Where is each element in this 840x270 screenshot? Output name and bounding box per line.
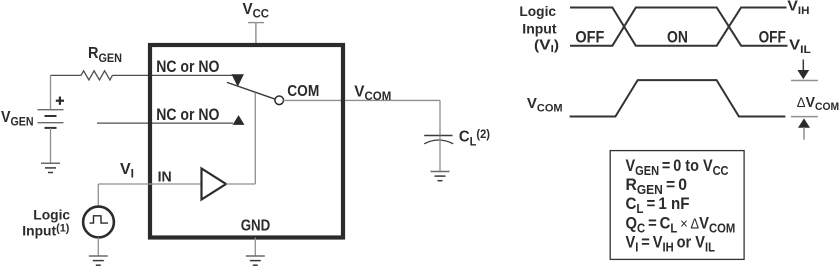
svg-text:GND: GND	[241, 218, 271, 235]
svg-text:VCC: VCC	[243, 1, 270, 21]
label VIH	[787, 0, 809, 17]
VCOM waveform	[570, 80, 786, 116]
wire switch control from buffer	[254, 93, 256, 184]
condition line 2	[626, 175, 688, 196]
svg-text:Input(1): Input(1)	[22, 222, 69, 238]
DUT box	[150, 45, 343, 238]
svg-text:Input: Input	[522, 20, 557, 36]
condition line 5	[626, 234, 716, 255]
label VCOM (schematic)	[354, 83, 391, 103]
label VIL	[789, 37, 811, 56]
label VGEN	[1, 108, 34, 129]
label Logic Input(1)	[33, 206, 70, 222]
wire COM to VCOM node	[283, 99, 440, 101]
svg-text:RGEN: RGEN	[88, 45, 122, 65]
switch lever arm	[227, 82, 275, 99]
label ON	[667, 28, 688, 47]
svg-text:OFF: OFF	[575, 28, 604, 46]
svg-text:NC or NO: NC or NO	[156, 106, 219, 125]
op-amp buffer	[202, 169, 227, 200]
label VI	[120, 161, 134, 181]
label delta VCOM	[797, 95, 839, 114]
wire buffer output	[226, 183, 255, 185]
svg-text:VCOM: VCOM	[527, 95, 563, 114]
svg-text:NC or NO: NC or NO	[156, 58, 219, 77]
svg-text:ΔVCOM: ΔVCOM	[797, 95, 839, 114]
svg-text:CL(2): CL(2)	[459, 128, 490, 148]
pulse generator (logic input source)	[83, 184, 114, 256]
capacitor CL	[424, 136, 453, 172]
svg-text:OFF: OFF	[759, 28, 786, 47]
svg-text:Logic: Logic	[519, 4, 556, 19]
wire NC-top inside box to contact	[150, 74, 233, 76]
test conditions box	[610, 151, 744, 260]
condition line 1	[626, 157, 729, 178]
svg-text:COM: COM	[287, 83, 319, 100]
label OFF (right)	[759, 28, 786, 47]
dimension arrow up	[798, 118, 810, 139]
svg-text:VI = VIH or VIL: VI = VIH or VIL	[626, 234, 716, 255]
svg-text:IN: IN	[158, 169, 172, 185]
condition line 3	[626, 194, 690, 216]
wire NC-bottom (open left end)	[97, 122, 233, 124]
label VCC	[243, 1, 270, 21]
wire VI to buffer	[98, 183, 201, 185]
label RGEN	[88, 45, 122, 65]
contact triangle up (bottom throw)	[233, 115, 245, 125]
svg-text:VGEN: VGEN	[1, 108, 34, 129]
COM pole circle	[275, 96, 284, 105]
reference line bottom	[791, 116, 818, 118]
svg-text:VCOM: VCOM	[354, 83, 391, 103]
svg-text:VI: VI	[120, 161, 134, 181]
label IN	[158, 169, 172, 185]
svg-text:QC = CL × ΔVCOM: QC = CL × ΔVCOM	[626, 215, 736, 236]
label NC or NO (top)	[156, 58, 219, 77]
resistor RGEN	[81, 71, 150, 80]
wire VCC stub into box	[255, 23, 257, 45]
contact triangle down (top throw)	[232, 74, 244, 87]
label CL(2)	[459, 128, 490, 148]
label Logic Input (VI)	[519, 4, 556, 19]
label NC or NO (bottom)	[156, 106, 219, 125]
svg-text:VIH: VIH	[787, 0, 809, 17]
wire from VGEN battery top to resistor	[51, 74, 82, 76]
ground pulse generator	[89, 256, 108, 265]
svg-text:(VI): (VI)	[534, 36, 559, 55]
label COM	[287, 83, 319, 100]
power terminal VCC bar	[248, 22, 264, 24]
label GND	[241, 218, 271, 235]
ground VGEN	[41, 163, 60, 172]
label VCOM (waveform)	[527, 95, 563, 114]
condition line 4	[626, 215, 736, 236]
svg-text:VIL: VIL	[789, 37, 811, 56]
ground CL	[431, 172, 450, 181]
logic input waveform	[570, 8, 788, 46]
battery VGEN	[38, 75, 64, 163]
label OFF (left)	[575, 28, 604, 46]
svg-text:CL = 1 nF: CL = 1 nF	[626, 194, 690, 216]
label + polarity	[56, 97, 64, 105]
GND pin wire	[254, 238, 256, 257]
wire down to CL	[439, 100, 441, 135]
ground DUT	[246, 256, 265, 265]
dimension arrow down	[797, 60, 809, 80]
reference line top	[791, 80, 818, 82]
svg-text:Logic: Logic	[33, 206, 70, 222]
svg-text:ON: ON	[667, 28, 688, 47]
